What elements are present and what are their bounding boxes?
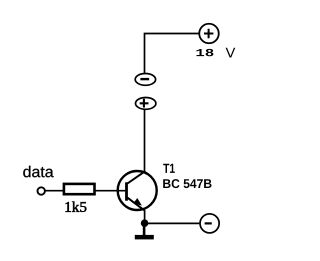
wire collector (supply plus ellipse down to transistor) (144, 110, 146, 172)
terminal minus (bottom right) (200, 214, 219, 233)
resistor 1k5 (64, 184, 95, 194)
label data (23, 166, 53, 178)
wire junction to minus terminal (145, 222, 200, 224)
junction dot (141, 219, 149, 227)
wire resistor to base (95, 190, 125, 192)
label BC 547B (163, 179, 211, 188)
ground (135, 223, 154, 239)
terminal +18V (top right) (199, 24, 219, 44)
terminal data input (open circle) (38, 187, 45, 194)
label T1 (163, 164, 175, 173)
terminal plus (supply, lower ellipse) (136, 98, 156, 110)
terminal minus (supply, upper ellipse) (135, 74, 155, 86)
label 1k5 (66, 202, 87, 212)
transistor T1 (118, 171, 157, 211)
wire from +18V terminal to supply minus ellipse (145, 34, 200, 73)
wire emitter (transistor to junction) (144, 210, 146, 223)
wire data terminal to resistor (45, 190, 63, 192)
label 18 V (196, 48, 235, 58)
